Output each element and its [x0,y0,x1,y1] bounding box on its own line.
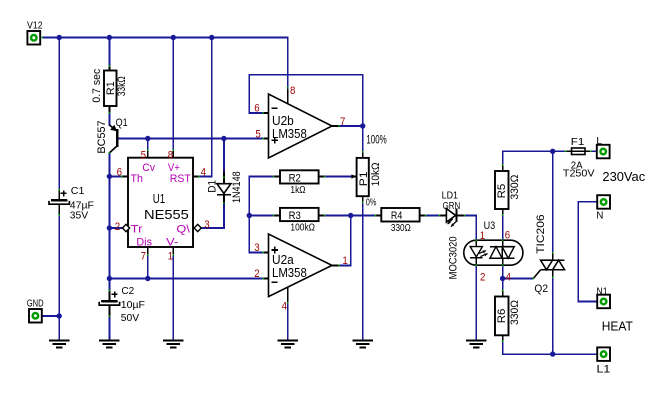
svg-text:4: 4 [506,272,511,284]
svg-text:C1: C1 [71,185,85,197]
svg-text:7: 7 [340,116,345,128]
svg-text:6: 6 [505,229,510,241]
svg-text:HEAT: HEAT [602,318,633,333]
svg-text:R4: R4 [391,210,402,222]
svg-text:R5: R5 [496,184,508,199]
svg-text:L1: L1 [597,364,611,376]
svg-text:Th: Th [131,173,143,185]
svg-text:100kΩ: 100kΩ [290,221,315,233]
svg-text:R1: R1 [105,81,117,95]
svg-text:3: 3 [204,219,209,231]
svg-text:8: 8 [290,85,295,97]
svg-text:P1: P1 [358,171,370,186]
svg-text:1kΩ: 1kΩ [290,184,305,196]
svg-text:4: 4 [282,301,287,313]
svg-text:4: 4 [201,166,206,178]
svg-text:RST: RST [170,173,191,185]
svg-text:T250V: T250V [563,168,595,180]
svg-text:GRN: GRN [443,200,461,212]
svg-text:7: 7 [141,251,146,263]
svg-text:V12: V12 [27,19,43,31]
svg-text:330Ω: 330Ω [391,222,411,234]
svg-text:R2: R2 [289,172,301,184]
svg-text:2: 2 [254,268,259,280]
svg-text:1: 1 [342,255,347,267]
svg-text:U1: U1 [153,191,165,206]
svg-text:Dis: Dis [136,237,152,249]
svg-text:Cv: Cv [142,162,155,174]
svg-text:1: 1 [168,251,173,263]
svg-text:C2: C2 [121,285,134,297]
svg-text:5: 5 [141,149,146,161]
svg-text:2: 2 [115,221,120,233]
svg-text:N: N [596,210,603,222]
svg-text:U3: U3 [484,220,496,232]
svg-text:230Vac: 230Vac [602,169,645,184]
svg-text:330Ω: 330Ω [509,175,521,200]
svg-text:50V: 50V [121,312,139,324]
svg-text:GND: GND [27,298,44,310]
svg-text:NE555: NE555 [144,207,189,222]
svg-text:2: 2 [480,272,485,284]
svg-text:R6: R6 [496,309,508,324]
svg-text:3: 3 [254,242,259,254]
svg-text:V+: V+ [168,162,180,174]
svg-text:D1: D1 [207,180,219,193]
svg-text:0%: 0% [366,197,377,209]
svg-text:8: 8 [168,149,173,161]
svg-text:6: 6 [117,166,122,178]
svg-text:6: 6 [254,103,259,115]
svg-text:TIC206: TIC206 [535,214,547,254]
svg-text:N1: N1 [596,285,607,297]
svg-text:1N4148: 1N4148 [231,171,243,203]
svg-text:MOC3020: MOC3020 [448,236,460,279]
svg-text:0.7 sec: 0.7 sec [91,68,103,102]
svg-text:10µF: 10µF [121,299,145,311]
svg-text:10kΩ: 10kΩ [370,162,382,186]
svg-text:LM358: LM358 [272,126,307,141]
svg-text:Q\: Q\ [176,224,190,236]
svg-text:L: L [596,135,602,147]
svg-text:33kΩ: 33kΩ [116,76,128,96]
svg-text:BC557: BC557 [96,120,108,153]
svg-text:Q1: Q1 [116,117,128,129]
svg-text:5: 5 [255,128,260,140]
svg-text:V-: V- [166,237,178,249]
svg-text:Tr: Tr [131,224,143,236]
svg-text:100%: 100% [366,134,386,147]
svg-text:R3: R3 [289,210,301,222]
svg-text:1: 1 [480,230,485,242]
svg-text:35V: 35V [70,210,88,222]
svg-text:F1: F1 [571,136,585,148]
svg-text:Q2: Q2 [534,283,548,295]
svg-text:LM358: LM358 [272,265,307,280]
svg-text:330Ω: 330Ω [509,300,521,325]
